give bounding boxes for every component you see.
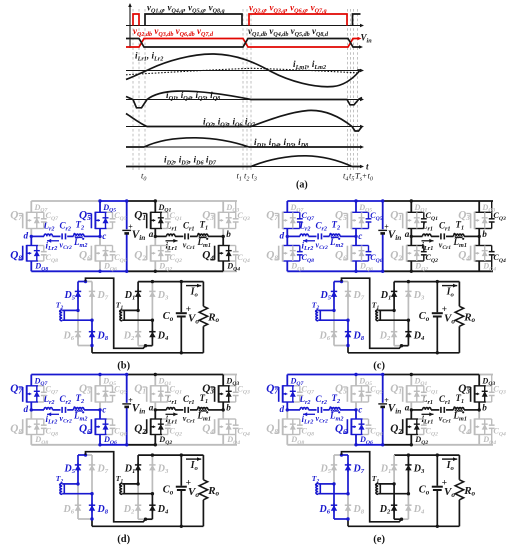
diode D7	[89, 282, 95, 321]
arrow iLr2	[303, 413, 315, 415]
waveform iLr1 iLr2	[126, 54, 360, 87]
junction right rect top	[151, 453, 154, 456]
wire bottom rail segment c0	[287, 270, 382, 272]
diode D6	[75, 310, 81, 345]
arrow vds red	[358, 37, 362, 41]
diode D2	[135, 310, 141, 345]
transistor Q3	[210, 212, 238, 229]
wire leg LC upper e	[410, 375, 412, 386]
transformer T2 secondary	[59, 310, 92, 321]
transistor Q4	[210, 245, 238, 262]
arrow iLr1	[422, 240, 434, 242]
junction	[125, 373, 128, 376]
transistor Q2	[143, 245, 171, 262]
wire leg LC upper b	[154, 201, 156, 212]
junction D8 bottom	[346, 517, 349, 520]
wire leg LD upper e	[478, 375, 480, 386]
wire leg LC lower b	[154, 236, 156, 245]
junction	[410, 270, 413, 273]
diode D6	[331, 310, 337, 345]
junction	[154, 199, 157, 202]
wire leg LB upper d	[99, 375, 101, 386]
node b	[222, 408, 225, 411]
wire top rail segment b2	[127, 200, 156, 202]
waveform v_gate row baseline	[126, 24, 364, 28]
arrow Io	[442, 458, 457, 460]
svg-text:a: a	[149, 402, 154, 412]
transistor Q2	[143, 418, 171, 435]
node a	[410, 235, 413, 238]
junction series link	[400, 344, 403, 347]
capacitor Cr1	[184, 233, 186, 239]
waveform vds red trace vQ2,db vQ3,db vQ6,db vQ7,d	[126, 39, 359, 48]
node d	[286, 235, 289, 238]
waveform gate black stub next cycle	[353, 14, 361, 26]
junction T1 bottom	[407, 492, 410, 495]
transistor Q8	[19, 245, 47, 262]
transistor Q3	[466, 212, 494, 229]
wire left rect top bridge	[334, 454, 342, 456]
diode D3	[405, 455, 411, 494]
junction Co top	[180, 280, 183, 283]
svg-text:a: a	[405, 229, 410, 239]
waveform iQ2 iQ3 iQ6 iQ7	[126, 110, 362, 131]
junction D8 bottom	[346, 344, 349, 347]
wire output bottom rail	[348, 525, 437, 527]
wire series link	[86, 452, 146, 522]
transformer T1 primary + Lm1	[198, 234, 209, 236]
inductor Lr2	[44, 408, 52, 410]
diode D3	[149, 282, 155, 321]
wire Vin vertical	[126, 375, 128, 403]
transformer T1 primary + Lm1	[454, 234, 465, 236]
wire frame extension right	[235, 201, 237, 212]
node d	[30, 408, 33, 411]
diode D2	[391, 484, 397, 519]
junction T1 top	[136, 309, 139, 312]
wire node a to node b branch	[155, 235, 166, 237]
junction	[154, 373, 157, 376]
wire top rail segment e1	[383, 374, 480, 376]
wire leg LC lower e	[410, 410, 412, 419]
wire leg LB upper e	[355, 375, 357, 386]
transformer T2 primary + Lm2	[74, 408, 85, 410]
wire leg LC upper c	[410, 201, 412, 212]
wire right rect top bridge to output	[394, 454, 459, 456]
diode D3	[405, 282, 411, 321]
svg-text:a: a	[149, 229, 154, 239]
wire top rail segment c1	[383, 200, 493, 202]
wire leg LD upper c	[478, 201, 480, 212]
wire output bottom from D8	[347, 346, 349, 353]
junction D8 bottom	[90, 344, 93, 347]
junction	[354, 270, 357, 273]
wire bottom rail segment d0	[31, 444, 100, 446]
wire leg LD lower d	[222, 410, 224, 419]
node a	[410, 408, 413, 411]
diode D1	[135, 455, 141, 484]
junction right rect top	[407, 453, 410, 456]
junction left rect top	[84, 280, 87, 283]
wire node d to node c branch	[31, 235, 44, 237]
capacitor Co	[176, 282, 187, 353]
axis iQ2 row	[126, 125, 364, 129]
node b	[478, 408, 481, 411]
arrow iLr end	[357, 69, 361, 72]
node c	[354, 235, 357, 238]
junction	[154, 270, 157, 273]
junction Co top	[180, 453, 183, 456]
transformer T1 primary + Lm1	[198, 408, 209, 410]
wire top rail segment e0	[287, 374, 382, 376]
diode D8	[89, 494, 95, 519]
diode D1	[391, 282, 397, 311]
transformer T1 secondary	[375, 483, 409, 494]
wire Vin vertical	[382, 201, 384, 229]
arrow iLr2	[47, 413, 59, 415]
wire node a to node b branch	[411, 409, 422, 411]
diode D1	[135, 282, 141, 311]
junction series link	[144, 344, 147, 347]
junction T2 top	[332, 482, 335, 485]
transformer T2 primary + Lm2	[74, 234, 85, 236]
wire node a to node b branch	[411, 235, 422, 237]
transistor Q1	[143, 385, 171, 402]
resistor Ro	[199, 455, 207, 526]
wire bottom rail segment d2	[127, 444, 156, 446]
junction T1 top	[392, 482, 395, 485]
wire leg LD upper d	[222, 375, 224, 386]
waveform iLm1 iLm2 dotted	[126, 68, 357, 75]
axis iD1 row	[126, 145, 364, 149]
arrow iLr2	[303, 240, 315, 242]
inductor Lr2	[300, 408, 309, 410]
transistor Q5	[343, 385, 371, 402]
junction Co top	[436, 280, 439, 283]
transformer T1 secondary	[119, 310, 152, 321]
diode D7	[345, 455, 351, 494]
transistor Q1	[399, 385, 427, 402]
junction T2 top	[332, 309, 335, 312]
diode D3	[149, 455, 155, 494]
wire leg LA lower e	[286, 410, 288, 419]
resistor Ro	[199, 282, 207, 353]
capacitor Co	[432, 282, 443, 353]
junction	[98, 270, 101, 273]
node b	[478, 235, 481, 238]
svg-text:c: c	[358, 231, 362, 241]
wire Vin vertical	[382, 375, 384, 403]
wire leg LA upper d	[30, 375, 32, 386]
diode D2	[391, 310, 397, 345]
svg-text:(b): (b)	[117, 361, 130, 372]
wire left rect top bridge	[78, 454, 86, 456]
diode D5	[75, 282, 81, 311]
transformer T2 secondary	[59, 483, 92, 494]
wire leg LC lower c	[410, 236, 412, 245]
transistor Q7	[275, 212, 303, 229]
junction Co top	[436, 453, 439, 456]
wire left rect bottom bridge	[78, 345, 92, 347]
junction	[410, 443, 413, 446]
transistor Q6	[343, 418, 371, 435]
node b	[222, 235, 225, 238]
junction T2 bottom	[346, 492, 349, 495]
transistor Q2	[399, 245, 427, 262]
wire right rect bottom bridge	[138, 518, 145, 520]
transistor Q5	[87, 385, 115, 402]
wire right rect top bridge to output	[138, 281, 203, 283]
wire node d to node c branch	[31, 409, 44, 411]
svg-text:(a): (a)	[296, 180, 308, 191]
source Vin battery	[378, 403, 387, 405]
svg-text:a: a	[405, 402, 410, 412]
transistor Q4	[466, 245, 494, 262]
time axis t	[126, 162, 369, 172]
junction T1 bottom	[151, 492, 154, 495]
node c	[354, 408, 357, 411]
wire leg LC lower d	[154, 410, 156, 419]
diode D6	[331, 484, 337, 519]
wire leg LB upper c	[355, 201, 357, 212]
wire top rail segment b0	[31, 200, 100, 202]
junction T1 bottom	[407, 319, 410, 322]
wire leg LB lower c	[355, 236, 357, 245]
junction T1 bottom	[151, 319, 154, 322]
svg-text:c: c	[102, 404, 106, 414]
capacitor Cr2	[61, 407, 63, 413]
transistor Q6	[87, 418, 115, 435]
junction left rect top	[340, 453, 343, 456]
diode D8	[89, 320, 95, 345]
inductor Lr1	[167, 234, 175, 236]
wire frame extension right	[235, 375, 237, 386]
diode D7	[345, 282, 351, 321]
diode D4	[405, 320, 411, 346]
capacitor Cr1	[440, 233, 442, 239]
transistor Q5	[343, 212, 371, 229]
wire top rail segment d2	[223, 374, 237, 376]
wire bottom rail segment b0	[31, 270, 126, 272]
wire output right side	[437, 352, 459, 354]
transistor Q7	[275, 385, 303, 402]
junction	[125, 270, 128, 273]
wire output bottom from D8	[347, 519, 349, 526]
inductor Lr1	[423, 408, 432, 410]
wire bottom rail segment d1	[100, 444, 127, 446]
waveform iD1 iD4 iD5 iD8	[126, 138, 360, 147]
wire leg LB lower b	[99, 236, 101, 245]
node c	[98, 408, 101, 411]
node c	[98, 235, 101, 238]
junction T1 top	[136, 482, 139, 485]
junction T2 top	[76, 482, 79, 485]
junction series link	[144, 518, 147, 521]
junction series link	[400, 518, 403, 521]
diode D4	[149, 494, 155, 520]
time axis vertical	[128, 3, 132, 48]
diode D1	[391, 455, 397, 484]
transistor Q5	[87, 212, 115, 229]
wire left rect bottom bridge	[334, 518, 348, 520]
transistor Q8	[275, 418, 303, 435]
inductor Lr1	[167, 408, 175, 410]
wire series link	[342, 452, 402, 522]
junction Co bottom	[180, 525, 183, 528]
wire node a to node b branch	[155, 409, 166, 411]
diode D5	[331, 282, 337, 311]
wire right rect bottom bridge	[394, 518, 401, 520]
wire frame extension right	[491, 201, 493, 212]
wire node d to node c branch	[287, 235, 300, 237]
diode D4	[405, 494, 411, 520]
axis iLr row	[126, 69, 364, 73]
junction	[154, 443, 157, 446]
wire output right side	[437, 525, 459, 527]
waveform gate red pulse vQ2,g vQ3,g vQ6,g vQ7,g	[249, 14, 347, 26]
source Vin battery	[378, 229, 387, 231]
wire series link	[342, 278, 402, 348]
wire leg LD lower c	[478, 236, 480, 245]
wire top rail segment d0	[31, 374, 126, 376]
svg-text:d: d	[24, 231, 29, 241]
transformer T1 secondary	[119, 483, 152, 494]
wire leg LB upper b	[99, 201, 101, 212]
transistor Q3	[466, 385, 494, 402]
svg-text:b: b	[226, 229, 231, 239]
wire top rail segment e2	[479, 374, 493, 376]
diode D2	[135, 484, 141, 519]
diode D8	[345, 494, 351, 519]
wire leg LD lower b	[222, 236, 224, 245]
transistor Q1	[143, 212, 171, 229]
transformer T1 primary + Lm1	[454, 408, 465, 410]
svg-text:b: b	[482, 229, 487, 239]
junction Co bottom	[436, 351, 439, 354]
wire output bottom rail	[92, 352, 181, 354]
junction	[381, 443, 384, 446]
junction	[410, 199, 413, 202]
wire node d to node c branch	[287, 409, 300, 411]
transistor Q1	[399, 212, 427, 229]
diode D5	[75, 455, 81, 484]
waveform gate red stub previous cycle	[133, 14, 139, 26]
capacitor Co	[176, 455, 187, 526]
diode D5	[331, 455, 337, 484]
wire leg LB lower e	[355, 410, 357, 419]
wire bottom rail segment c1	[383, 270, 493, 272]
transformer T2 secondary	[315, 310, 348, 321]
wire output bottom rail	[92, 525, 181, 527]
wire leg LA lower c	[286, 236, 288, 245]
capacitor Cr1	[440, 407, 442, 413]
arrow Io	[186, 458, 201, 460]
junction	[381, 270, 384, 273]
waveform iD2 iD3 iD6 iD7	[126, 156, 360, 167]
source Vin battery	[122, 229, 131, 231]
junction D8 bottom	[90, 517, 93, 520]
wire bottom rail segment b2	[223, 270, 237, 272]
junction left rect top	[340, 280, 343, 283]
wire output bottom from D8	[91, 519, 93, 526]
inductor Lr2	[300, 234, 309, 236]
axis iQ1 row	[126, 98, 364, 102]
wire leg LB lower d	[99, 410, 101, 419]
capacitor Cr2	[61, 233, 63, 239]
transformer T2 primary + Lm2	[330, 408, 341, 410]
wire series link	[86, 278, 146, 348]
wire output right side	[181, 525, 203, 527]
capacitor Cr1	[184, 407, 186, 413]
svg-text:(e): (e)	[373, 534, 385, 545]
capacitor Co	[432, 455, 443, 526]
junction right rect top	[407, 280, 410, 283]
svg-text:d: d	[280, 404, 285, 414]
transistor Q2	[399, 418, 427, 435]
arrow Io	[186, 285, 201, 287]
junction right rect top	[151, 280, 154, 283]
svg-text:d: d	[280, 231, 285, 241]
arrow Io	[442, 285, 457, 287]
wire right rect top bridge to output	[138, 454, 203, 456]
wire left rect bottom bridge	[78, 518, 92, 520]
svg-text:b: b	[482, 402, 487, 412]
resistor Ro	[455, 455, 463, 526]
transformer T2 secondary	[315, 483, 348, 494]
junction	[381, 373, 384, 376]
junction T1 top	[392, 309, 395, 312]
diode D8	[345, 320, 351, 345]
wire leg LD upper b	[222, 201, 224, 212]
diode D6	[75, 484, 81, 519]
svg-text:(c): (c)	[373, 361, 385, 372]
junction	[98, 443, 101, 446]
wire bottom rail segment e2	[383, 444, 412, 446]
transistor Q4	[210, 418, 238, 435]
arrow iLr1	[166, 413, 178, 415]
svg-text:c: c	[102, 231, 106, 241]
junction	[98, 199, 101, 202]
source Vin battery	[122, 403, 131, 405]
transformer T1 secondary	[375, 310, 409, 321]
junction	[410, 373, 413, 376]
transistor Q7	[19, 385, 47, 402]
wire output right side	[181, 352, 203, 354]
svg-text:d: d	[24, 404, 29, 414]
wire bottom rail segment b1	[127, 270, 224, 272]
transistor Q3	[210, 385, 238, 402]
svg-text:c: c	[358, 404, 362, 414]
wire leg LA upper c	[286, 201, 288, 212]
wire output bottom from D8	[91, 346, 93, 353]
wire leg LA upper b	[30, 201, 32, 212]
junction	[98, 373, 101, 376]
arrow iLr2	[47, 240, 59, 242]
wire leg LA lower d	[30, 410, 32, 419]
wire output bottom rail	[348, 352, 437, 354]
junction T2 bottom	[90, 492, 93, 495]
wire Vin vertical	[126, 201, 128, 229]
transistor Q8	[19, 418, 47, 435]
wire frame extension right	[491, 375, 493, 386]
node a	[154, 408, 157, 411]
junction left rect top	[84, 453, 87, 456]
wire left rect bottom bridge	[334, 345, 348, 347]
diode D7	[89, 455, 95, 494]
svg-text:b: b	[226, 402, 231, 412]
transformer T2 primary + Lm2	[330, 234, 341, 236]
junction T2 bottom	[90, 319, 93, 322]
